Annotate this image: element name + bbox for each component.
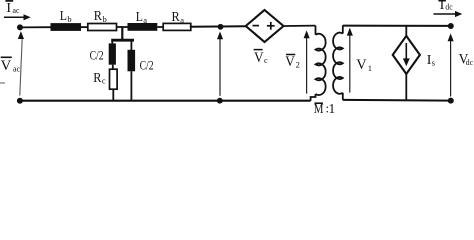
svg-text:dc: dc (445, 2, 452, 12)
svg-text:c: c (102, 76, 106, 86)
label Is (427, 53, 435, 68)
label M:1 (314, 101, 335, 116)
wire La-Ra (157, 26, 164, 28)
svg-text:M: M (314, 101, 324, 115)
label Lb (60, 9, 72, 24)
capacitor C/2 (right) (128, 50, 136, 72)
shunt junction bar (111, 39, 134, 42)
svg-text:I: I (6, 1, 11, 16)
wire Ra to Vc source (190, 25, 246, 28)
svg-text:c: c (264, 55, 268, 65)
svg-text:dc: dc (466, 57, 473, 67)
svg-text:a: a (180, 15, 184, 25)
wire Is diamond bottom to rail (405, 74, 407, 100)
node bottom-left (17, 98, 23, 104)
wire Rb-La with junction (117, 26, 128, 28)
node top-right (448, 23, 454, 29)
wire right branch top (130, 40, 132, 50)
label Vc (254, 50, 268, 66)
resistor Ra (163, 23, 191, 30)
transformer secondary coil (333, 33, 343, 94)
label La (136, 10, 148, 25)
svg-text:I: I (440, 0, 445, 13)
svg-text:R: R (94, 9, 103, 24)
svg-text:L: L (60, 9, 67, 24)
wire secondary top (342, 25, 344, 33)
capacitor C/2 (left) (109, 43, 116, 64)
inductor Lb (51, 23, 82, 31)
svg-text:1: 1 (368, 63, 372, 73)
scan artifact dash left edge (0, 82, 5, 84)
svg-text:2: 2 (296, 59, 300, 69)
svg-text:V: V (356, 57, 367, 73)
label Rc (93, 71, 106, 86)
resistor Rb (88, 24, 117, 31)
wire right branch to bottom rail (130, 71, 132, 100)
label V_dc (459, 52, 474, 68)
inductor La (128, 23, 158, 31)
wire Rc to bottom rail (112, 89, 114, 101)
voltage arrow V_ac (18, 31, 24, 95)
resistor Rc (110, 69, 118, 89)
dependent source Vc (diamond) (246, 10, 284, 42)
node B bottom (217, 98, 223, 104)
voltage arrow at node A (217, 32, 223, 96)
wire secondary bottom (342, 93, 344, 100)
svg-text:b: b (67, 14, 71, 24)
svg-text:b: b (103, 14, 107, 24)
wire top rail to Is diamond (405, 26, 407, 36)
label I_dc (438, 0, 452, 13)
transformer primary coil M (316, 34, 326, 95)
dependent current source Is (diamond) (393, 36, 420, 74)
svg-text:L: L (136, 10, 143, 25)
svg-text:s: s (432, 58, 435, 68)
label I_ac (5, 1, 19, 16)
svg-text:ac: ac (12, 5, 19, 15)
svg-text:ac: ac (13, 63, 21, 73)
wire Vc to transformer (284, 25, 316, 27)
node top-left (17, 24, 23, 30)
node bottom-right (448, 98, 454, 104)
label Rb (94, 9, 107, 24)
wire between C/2 and Rc (112, 65, 114, 70)
svg-text:C/2: C/2 (140, 57, 154, 72)
current arrow I_dc (434, 11, 463, 17)
wire corner down to primary coil (315, 26, 317, 35)
svg-text:V: V (1, 58, 12, 74)
svg-text:a: a (143, 15, 147, 25)
svg-text:V: V (254, 50, 264, 66)
voltage arrow V1 (347, 28, 353, 93)
svg-text:C/2: C/2 (90, 47, 104, 62)
wire top-left to Lb (20, 26, 51, 28)
plus sign in Vc (267, 22, 275, 30)
wire primary coil bottom to rail (311, 94, 316, 101)
svg-text:1: 1 (329, 101, 336, 115)
svg-text:R: R (93, 71, 102, 86)
wire left branch top (111, 40, 113, 44)
label V_ac (1, 57, 21, 74)
node A (218, 24, 224, 30)
label V2 (285, 54, 300, 70)
bottom rail (left circuit) (20, 100, 311, 102)
wire Lb-Rb (81, 26, 87, 28)
minus sign in Vc (253, 25, 260, 27)
voltage arrow V2 (304, 30, 310, 93)
top rail (right circuit) (343, 25, 451, 27)
wire junction drop (121, 27, 123, 40)
label Ra (172, 10, 185, 25)
current arrow I_ac (4, 14, 31, 20)
voltage arrow V_dc (448, 33, 454, 96)
label V1 (356, 57, 372, 73)
bottom rail (right circuit) (343, 99, 451, 102)
arrow inside Is (403, 43, 410, 66)
svg-text:R: R (172, 10, 181, 25)
svg-text:V: V (285, 54, 295, 70)
